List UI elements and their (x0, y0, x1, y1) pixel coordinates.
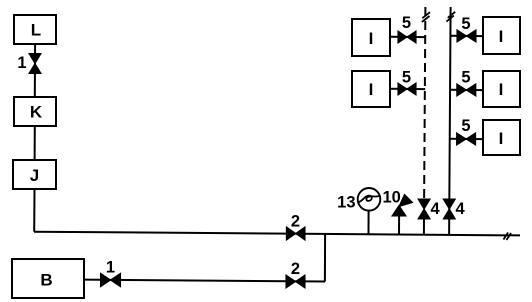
svg-text:4: 4 (431, 200, 441, 218)
svg-text:I: I (369, 80, 374, 99)
svg-text:4: 4 (456, 200, 466, 218)
svg-text:L: L (31, 21, 41, 40)
svg-text:I: I (499, 129, 504, 148)
svg-text:B: B (40, 271, 52, 290)
svg-text:2: 2 (291, 260, 300, 278)
svg-text:I: I (499, 80, 504, 99)
svg-text:5: 5 (402, 14, 411, 32)
svg-text:10: 10 (383, 189, 401, 207)
svg-text:I: I (369, 29, 374, 48)
svg-text:5: 5 (461, 69, 470, 87)
svg-text:5: 5 (402, 69, 411, 87)
svg-text:2: 2 (291, 213, 300, 231)
svg-text:J: J (30, 166, 39, 185)
svg-text:K: K (30, 103, 43, 122)
svg-text:5: 5 (461, 117, 470, 135)
svg-text:13: 13 (337, 194, 355, 212)
svg-text:1: 1 (17, 54, 26, 72)
svg-text:5: 5 (461, 15, 470, 33)
svg-text:I: I (499, 27, 504, 46)
svg-text:1: 1 (106, 259, 115, 277)
